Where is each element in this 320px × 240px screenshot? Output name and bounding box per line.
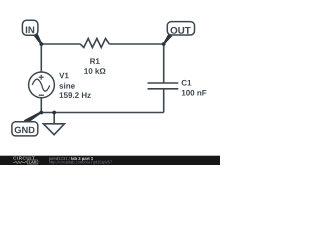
- V1 sine glyph: [32, 79, 50, 91]
- wire: IN node to resistor: [41, 43, 80, 45]
- V1 minus sign: [39, 94, 44, 96]
- node OUT wedge: [163, 33, 172, 44]
- junction: OUT node: [162, 42, 166, 46]
- label R1: [90, 58, 100, 64]
- wire: capacitor down to bottom rail: [163, 89, 165, 113]
- resistor R1: [80, 39, 109, 48]
- junction: bottom left: [39, 111, 43, 115]
- logo orange wave: [25, 161, 27, 164]
- label C1: [182, 80, 192, 86]
- flag GND box: [12, 122, 38, 136]
- wire: resistor to OUT node: [109, 43, 163, 45]
- wire: IN node down to V1: [40, 44, 42, 72]
- footer title: [71, 157, 93, 161]
- wire: OUT node down to capacitor: [163, 44, 165, 83]
- V1 plus sign: [39, 75, 44, 80]
- junction: IN node: [39, 42, 43, 46]
- logo resistor squiggle: [13, 161, 25, 163]
- label sine: [59, 83, 74, 89]
- label 100 nF: [182, 90, 207, 96]
- footer url: [49, 161, 112, 165]
- capacitor C1 bottom plate: [148, 88, 179, 90]
- label V1: [59, 73, 68, 79]
- wire: V1 down to bottom rail: [40, 98, 42, 113]
- flag IN text: [26, 27, 34, 34]
- wire: bottom rail: [41, 112, 163, 114]
- ground symbol: [43, 124, 64, 135]
- footer bar: [0, 156, 221, 166]
- wire: ground stub: [53, 113, 55, 124]
- flag OUT text: [171, 27, 191, 34]
- logo LAB text: [29, 161, 37, 164]
- junction: ground tap: [52, 111, 56, 115]
- label 10 kOhm: [84, 68, 105, 74]
- logo CIRCUIT: [13, 157, 34, 160]
- label 159.2 Hz: [60, 92, 91, 98]
- flag GND text: [15, 127, 35, 134]
- capacitor C1 top plate: [148, 82, 179, 84]
- footer author: [49, 157, 70, 161]
- logo LAB box: [27, 160, 38, 164]
- node GND wedge: [24, 111, 42, 124]
- node IN wedge: [33, 33, 42, 45]
- voltage source V1 circle: [29, 72, 55, 98]
- flag OUT box: [167, 22, 194, 35]
- flag IN box: [22, 20, 38, 35]
